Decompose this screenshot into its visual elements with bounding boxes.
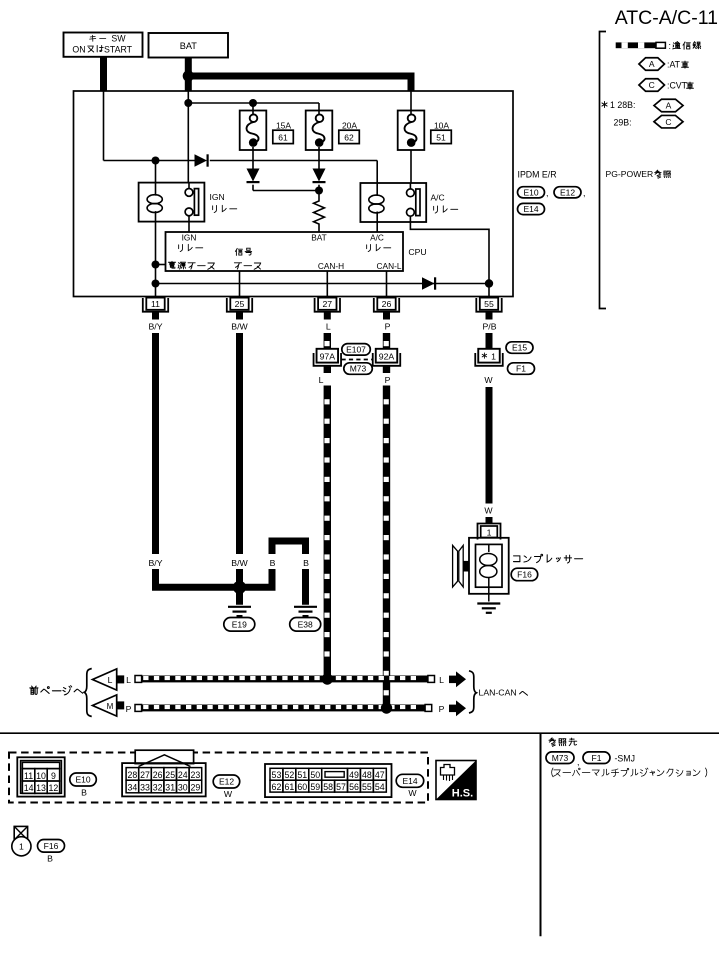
wire keySW vertical — [103, 91, 105, 161]
svg-text:27: 27 — [140, 770, 150, 780]
svg-text:E14: E14 — [402, 776, 417, 786]
connector E14 oval — [518, 203, 545, 214]
svg-text:29B:: 29B: — [614, 118, 632, 128]
compressor pin 1 — [478, 524, 501, 540]
svg-text:1: 1 — [19, 842, 24, 852]
node fuse bus left — [184, 99, 192, 107]
compressor coil — [488, 544, 490, 552]
wire loop to E38 — [240, 569, 273, 587]
label ground — [234, 263, 241, 269]
brace left — [84, 669, 91, 717]
LAN-CAN P line — [135, 705, 432, 712]
wire — [318, 185, 320, 191]
ground bus with diode — [156, 283, 490, 285]
svg-text:11: 11 — [24, 771, 33, 781]
connector E10 — [17, 757, 64, 796]
svg-text:A/C: A/C — [431, 193, 445, 203]
svg-text:48: 48 — [362, 770, 372, 780]
ground E38 symbol — [294, 606, 317, 608]
hexagon C 29B — [654, 115, 683, 128]
brace right — [469, 671, 476, 713]
svg-text:CAN-H: CAN-H — [318, 261, 344, 271]
relay IGN — [139, 183, 205, 222]
svg-text:F1: F1 — [516, 364, 526, 374]
svg-text:E107: E107 — [346, 344, 366, 354]
wire CAN-H to pin 27 — [326, 271, 328, 297]
label comm line — [673, 42, 681, 49]
pin stub wire — [152, 312, 159, 320]
node key/IGN coil junction — [152, 157, 160, 165]
svg-text:,: , — [577, 757, 579, 767]
svg-text:58: 58 — [323, 782, 333, 792]
wire CAN-H comm upper — [324, 333, 331, 349]
svg-text:C: C — [665, 117, 671, 127]
svg-text:IGN: IGN — [182, 233, 197, 243]
svg-text:CAN-L: CAN-L — [377, 261, 402, 271]
compressor pulley — [453, 545, 458, 587]
svg-text:M73: M73 — [552, 753, 569, 763]
svg-text:10A: 10A — [434, 120, 449, 130]
label SMJ — [552, 768, 553, 777]
svg-text::AT: :AT — [667, 60, 681, 70]
node P junction — [381, 702, 392, 713]
wire — [324, 366, 331, 373]
wire BAT to IGN relay contact — [187, 103, 189, 183]
svg-text:P: P — [385, 375, 391, 385]
connector M73 — [344, 363, 373, 375]
svg-text:32: 32 — [153, 783, 163, 793]
label reference — [549, 738, 556, 746]
svg-text:F16: F16 — [517, 570, 532, 580]
svg-text:92A: 92A — [379, 352, 395, 362]
svg-text:P: P — [385, 322, 391, 332]
wire B/W to ground — [236, 569, 243, 605]
svg-text:E10: E10 — [75, 775, 90, 785]
connector E12 label — [213, 775, 240, 788]
label IGN relay — [213, 205, 217, 212]
legend comm line sample — [616, 42, 658, 48]
svg-text:59: 59 — [310, 782, 320, 792]
svg-text:L: L — [439, 675, 444, 685]
svg-text:25: 25 — [235, 299, 245, 309]
wire CAN-H comm to LAN line — [324, 386, 331, 676]
svg-text:57: 57 — [336, 782, 346, 792]
compressor F16 body — [469, 538, 509, 594]
svg-text:30: 30 — [178, 783, 188, 793]
svg-text:B: B — [270, 558, 276, 568]
svg-text:52: 52 — [284, 770, 294, 780]
svg-text:15A: 15A — [276, 120, 291, 130]
connector E14 — [265, 764, 392, 797]
svg-text:1: 1 — [487, 527, 492, 537]
H.S. logo — [436, 761, 476, 800]
wire to fuse 20A — [318, 103, 320, 111]
svg-text:47: 47 — [375, 770, 385, 780]
label previous page — [30, 686, 38, 694]
page arrow L — [93, 669, 117, 690]
svg-text:E19: E19 — [232, 619, 247, 629]
svg-text:1 28B:: 1 28B: — [610, 100, 635, 110]
svg-text:E38: E38 — [298, 619, 313, 629]
svg-text:51: 51 — [436, 133, 446, 143]
svg-text:55: 55 — [484, 299, 494, 309]
legend bracket — [600, 32, 607, 309]
node power gnd — [152, 261, 160, 269]
pin stub wire — [383, 312, 390, 320]
svg-text:34: 34 — [128, 783, 138, 793]
svg-text:E15: E15 — [512, 343, 527, 353]
svg-text:1: 1 — [491, 352, 496, 362]
svg-text:28: 28 — [128, 770, 138, 780]
BAT thick corner down — [408, 73, 415, 92]
svg-text:B/W: B/W — [231, 558, 248, 568]
wire B/W upper — [236, 333, 243, 554]
svg-text:ON: ON — [72, 44, 85, 54]
svg-text:B/W: B/W — [231, 322, 248, 332]
wire — [383, 366, 390, 373]
diode D4 — [422, 277, 435, 289]
wire to IGN relay coil — [155, 161, 157, 183]
svg-text:62: 62 — [272, 782, 282, 792]
svg-text:51: 51 — [297, 770, 307, 780]
connector E12 — [135, 750, 193, 763]
node BAT junction — [183, 70, 194, 81]
svg-text:E10: E10 — [523, 187, 538, 197]
hexagon A 28B — [654, 99, 683, 112]
compressor ground — [488, 587, 490, 601]
svg-text:IPDM E/R: IPDM E/R — [518, 170, 557, 180]
label power ground — [168, 261, 175, 268]
svg-text:C: C — [649, 80, 655, 90]
svg-text:14: 14 — [24, 783, 34, 793]
wire B/Y upper — [152, 333, 159, 554]
svg-text:27: 27 — [322, 299, 332, 309]
svg-text:10: 10 — [36, 771, 46, 781]
wire power gnd link — [156, 264, 166, 266]
svg-text:START: START — [104, 44, 133, 54]
svg-text:25: 25 — [165, 770, 175, 780]
wire A/C contact to pin 55 — [410, 222, 489, 297]
wire W stub — [486, 517, 493, 524]
svg-text:33: 33 — [140, 783, 150, 793]
svg-text:B: B — [81, 788, 87, 798]
connector F1 — [508, 363, 535, 375]
svg-text:,: , — [546, 188, 548, 198]
svg-text:60: 60 — [297, 782, 307, 792]
label A/C relay — [434, 206, 438, 213]
svg-text:L: L — [326, 322, 331, 332]
asterisk — [602, 101, 607, 107]
svg-text:W: W — [484, 506, 493, 516]
node fuse 15A tap — [249, 99, 257, 107]
svg-text:L: L — [319, 375, 324, 385]
connector E10 oval — [518, 187, 545, 198]
svg-text:L: L — [126, 675, 131, 685]
hexagon A — [639, 58, 665, 71]
wire CAN-L comm to LAN line — [383, 386, 390, 705]
svg-text:13: 13 — [36, 783, 46, 793]
wire to fuse 15A — [252, 103, 254, 111]
svg-text::: : — [669, 41, 671, 51]
svg-text:54: 54 — [375, 782, 385, 792]
svg-text:LAN-CAN: LAN-CAN — [479, 688, 517, 698]
svg-text:97A: 97A — [320, 352, 336, 362]
connector M73 ref — [546, 752, 574, 764]
relay A/C — [360, 183, 426, 222]
pin 25 — [227, 298, 252, 312]
wire fuse20A to diode — [318, 147, 320, 169]
svg-text:26: 26 — [153, 770, 163, 780]
asterisk in *1 — [482, 353, 487, 358]
svg-text:56: 56 — [349, 782, 359, 792]
diode D1 — [195, 154, 208, 166]
svg-text:23: 23 — [191, 770, 201, 780]
svg-text:BAT: BAT — [311, 233, 327, 243]
connector 92A — [373, 353, 401, 366]
fuse 15A 61 — [240, 111, 267, 151]
svg-text:31: 31 — [165, 783, 175, 793]
wire B/Y lower corner — [156, 569, 240, 587]
pin 26 — [374, 298, 399, 312]
H.S. connector icon — [441, 765, 455, 776]
svg-text:B/Y: B/Y — [148, 558, 162, 568]
BAT thick horizontal — [188, 73, 411, 80]
ground E19 symbol — [228, 606, 251, 608]
connector E15 — [506, 342, 533, 354]
pin stub wire — [236, 312, 243, 320]
pin 55 — [476, 298, 501, 312]
BAT box — [149, 33, 229, 58]
connector E38 — [290, 618, 321, 632]
wire signal gnd to pin 25 — [239, 271, 241, 297]
svg-text:B: B — [47, 854, 53, 864]
svg-text:24: 24 — [178, 770, 188, 780]
wire IGN coil to pin 11 — [155, 222, 157, 297]
svg-text:SW: SW — [111, 34, 126, 44]
svg-text:B/Y: B/Y — [148, 322, 162, 332]
svg-text:W: W — [224, 789, 233, 799]
svg-text:,: , — [583, 188, 585, 198]
wire B to E38 ground — [302, 569, 309, 605]
svg-text:P: P — [126, 704, 132, 714]
F16 pin symbol — [14, 826, 27, 840]
fuse 10A 51 — [398, 111, 425, 151]
diode D2 — [247, 169, 260, 182]
wire — [252, 185, 254, 191]
wire to diode — [104, 160, 195, 162]
divider line — [540, 733, 542, 936]
wire W to compressor — [486, 387, 493, 504]
separator line — [0, 732, 719, 734]
node L junction — [322, 673, 333, 684]
wire fuse10A to A/C relay contact — [410, 150, 412, 183]
svg-text:W: W — [484, 375, 493, 385]
label CVT car — [687, 82, 694, 89]
svg-text::CVT: :CVT — [667, 81, 688, 91]
wire IGN contact to CPU — [188, 222, 190, 232]
svg-text:H.S.: H.S. — [452, 788, 473, 800]
wire A/C coil to CPU — [376, 222, 378, 232]
wire diode to A/C relay coil — [210, 160, 377, 162]
svg-text:20A: 20A — [342, 120, 357, 130]
connector 97A — [314, 353, 342, 366]
node resistor top — [315, 187, 323, 195]
svg-text:A/C: A/C — [370, 233, 384, 243]
svg-text:61: 61 — [278, 133, 288, 143]
connector F1 ref — [583, 752, 610, 764]
wire BAT inside box — [187, 91, 189, 104]
connector F16 label — [38, 840, 65, 853]
dashed connector box — [9, 753, 428, 803]
connector F16 oval — [511, 568, 538, 581]
pin 11 — [143, 298, 168, 312]
label — [367, 244, 371, 251]
svg-text:-SMJ: -SMJ — [615, 754, 636, 764]
svg-text:49: 49 — [349, 770, 359, 780]
svg-text:M: M — [107, 702, 114, 711]
arrow P right — [449, 705, 457, 713]
svg-text:BAT: BAT — [180, 41, 198, 51]
svg-text:E12: E12 — [560, 187, 575, 197]
key switch box — [64, 33, 143, 57]
svg-text:62: 62 — [344, 133, 354, 143]
svg-text:A: A — [666, 101, 672, 111]
connector E107 — [342, 344, 371, 356]
BAT thick wire — [185, 58, 192, 91]
connector E14 label — [396, 774, 424, 787]
svg-text:50: 50 — [310, 770, 320, 780]
svg-text:12: 12 — [49, 783, 59, 793]
diode join wire — [253, 190, 319, 192]
CPU box — [166, 232, 404, 271]
svg-text:PG-POWER: PG-POWER — [606, 169, 654, 179]
label — [179, 244, 183, 251]
svg-text:F1: F1 — [592, 753, 602, 763]
dashed link 97A-92A — [342, 359, 374, 361]
connector E10 label — [70, 773, 97, 786]
wire to A/C relay coil — [376, 161, 378, 184]
fuse 20A 62 — [306, 111, 333, 151]
wire P/B thick — [486, 333, 493, 349]
svg-text:W: W — [408, 788, 417, 798]
IPDM E/R box — [74, 91, 514, 297]
connector *1 — [475, 353, 503, 366]
svg-text:IGN: IGN — [210, 192, 225, 202]
pin stub wire — [486, 312, 493, 320]
label signal — [235, 248, 242, 255]
wire keySW thick stub — [100, 57, 107, 91]
fuse bus horizontal — [188, 102, 319, 104]
label AT car — [682, 61, 689, 68]
wire to fuse 10A — [410, 91, 412, 111]
LAN-CAN L line — [135, 676, 435, 683]
svg-text:11: 11 — [151, 299, 160, 309]
svg-text:61: 61 — [284, 782, 294, 792]
wire fuse15A to diode — [252, 147, 254, 169]
hexagon C — [639, 79, 665, 92]
diode D3 — [313, 169, 326, 182]
label compressor — [514, 556, 520, 562]
svg-text:B: B — [303, 558, 309, 568]
resistor R1 — [314, 191, 325, 233]
pin stub wire — [324, 312, 331, 320]
node ground junction — [233, 581, 246, 594]
svg-text:29: 29 — [191, 783, 201, 793]
svg-text:55: 55 — [362, 782, 372, 792]
svg-text:9: 9 — [51, 771, 56, 781]
svg-text:A: A — [649, 59, 655, 69]
wire CAN-L to pin 26 — [386, 271, 388, 297]
svg-text:CPU: CPU — [408, 247, 426, 257]
svg-text:M73: M73 — [350, 364, 367, 374]
svg-text:E12: E12 — [219, 777, 234, 787]
svg-text:P: P — [439, 704, 445, 714]
svg-text:26: 26 — [382, 299, 392, 309]
svg-text:F16: F16 — [44, 841, 59, 851]
svg-text:ATC-A/C-11: ATC-A/C-11 — [615, 7, 718, 29]
connector E19 — [224, 618, 255, 632]
pin 27 — [315, 298, 340, 312]
svg-text:E14: E14 — [523, 204, 538, 214]
svg-text:L: L — [108, 675, 113, 685]
svg-text:P/B: P/B — [482, 322, 496, 332]
wire CAN-L comm upper — [383, 333, 390, 349]
page arrow M — [93, 695, 117, 716]
svg-text:53: 53 — [272, 770, 282, 780]
arrow L right — [449, 676, 457, 684]
connector E12 oval — [554, 187, 581, 198]
